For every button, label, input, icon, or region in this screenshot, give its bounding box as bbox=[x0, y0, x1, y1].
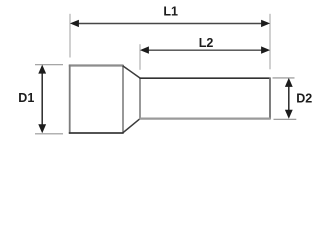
dimension line L2 bbox=[148, 49, 262, 51]
L1/L2 right extension line bbox=[269, 14, 271, 70]
ferrule collar right edge bbox=[122, 65, 124, 133]
tube right edge bbox=[269, 78, 271, 120]
L1 left extension line bbox=[69, 14, 71, 58]
dimension line D2 bbox=[288, 84, 290, 113]
D1 top extension line bbox=[35, 64, 63, 66]
D2 top arrowhead bbox=[285, 78, 293, 87]
ferrule collar bottom edge bbox=[69, 132, 124, 134]
D2 top extension line bbox=[273, 77, 295, 79]
dimension line D1 bbox=[41, 72, 43, 127]
ferrule collar (insulation sleeve) top edge bbox=[69, 64, 124, 66]
tube left edge (cone end) bbox=[139, 78, 141, 119]
cone lower diagonal bbox=[123, 118, 141, 133]
svg-text:L1: L1 bbox=[163, 4, 178, 18]
D1 bottom arrowhead bbox=[38, 124, 46, 133]
ferrule collar left edge bbox=[69, 65, 71, 134]
L2 left arrowhead bbox=[140, 46, 149, 53]
cone upper diagonal bbox=[123, 66, 141, 79]
svg-text:D1: D1 bbox=[18, 91, 34, 105]
tube top edge bbox=[139, 77, 270, 79]
svg-text:L2: L2 bbox=[199, 36, 214, 50]
D2 bottom arrowhead bbox=[285, 110, 293, 119]
dimension line L1 bbox=[78, 23, 262, 25]
tube bottom edge bbox=[139, 117, 270, 119]
L1 left arrowhead bbox=[70, 20, 79, 27]
D1 top arrowhead bbox=[38, 65, 46, 74]
L1 right arrowhead bbox=[261, 20, 270, 27]
svg-text:D2: D2 bbox=[296, 91, 312, 105]
L2 right arrowhead bbox=[261, 46, 270, 53]
L2 left extension line bbox=[139, 44, 141, 70]
D2 bottom extension line bbox=[274, 118, 297, 120]
D1 bottom extension line bbox=[35, 133, 63, 135]
